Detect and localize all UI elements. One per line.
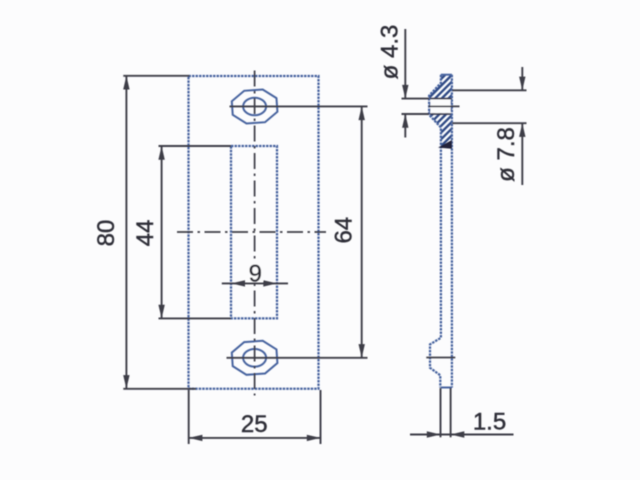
dim 4.3 line upper segment	[404, 29, 406, 98]
dim 25 extension line left	[188, 390, 190, 444]
dim 9 line	[222, 282, 288, 284]
arrow 9 right	[263, 280, 277, 286]
dim 7.8 line lower segment	[521, 124, 523, 185]
svg-text:9: 9	[249, 261, 262, 288]
horizontal centerline	[177, 231, 326, 233]
dim 25 line	[189, 437, 320, 439]
top screw hole bore	[243, 98, 266, 116]
svg-text:64: 64	[331, 217, 358, 244]
hatch terminator arrow	[438, 140, 452, 149]
dim 64 extension line top (hole h-centerline)	[230, 105, 368, 107]
dim 1.5 extension right	[450, 388, 452, 437]
svg-text:ø 4.3: ø 4.3	[377, 25, 404, 80]
svg-text:80: 80	[93, 220, 120, 247]
arrow 44 top	[158, 146, 164, 160]
bottom hole centerline (side view)	[426, 357, 455, 359]
dim 44 extension line top	[159, 145, 232, 147]
arrow 1.5 right (left-pointing)	[451, 431, 465, 437]
arrow 64 top	[359, 106, 365, 120]
arrow 9 left	[231, 280, 245, 286]
svg-text:1.5: 1.5	[473, 409, 506, 436]
arrow 64 bottom	[359, 344, 365, 358]
bore edges in section	[430, 99, 452, 114]
arrowheads side view	[402, 77, 525, 438]
dim 44 line	[161, 147, 163, 319]
bore gap (white) in section	[430, 100, 450, 114]
arrow 80 bottom	[123, 375, 129, 389]
dim 64 line	[361, 107, 363, 358]
dim 64 extension line bottom (hole h-centerline)	[227, 357, 368, 359]
arrow 4.3 top (down)	[402, 85, 408, 99]
dim 4.3 extension bottom	[402, 113, 430, 115]
side profile bottom cap	[441, 387, 452, 389]
dim 4.3 line lower segment	[404, 115, 406, 138]
side profile left edge with countersink flare and bottom bulge	[429, 75, 441, 388]
dim 7.8 extension bottom	[452, 122, 526, 124]
dim 1.5 line	[410, 434, 514, 436]
dim 25 extension line right	[320, 390, 322, 444]
dim 80 extension line top	[123, 75, 189, 77]
arrow 25 left	[189, 435, 203, 441]
arrowheads front view	[123, 76, 365, 441]
white gap behind label 9	[248, 262, 264, 282]
top screw hole countersink (octagon)	[231, 89, 278, 125]
arrow 25 right	[307, 435, 321, 441]
side profile right edge (back face)	[451, 75, 453, 388]
arrow 7.8 bottom (up)	[519, 123, 525, 137]
dim 1.5 extension left	[440, 388, 442, 437]
section hatching	[418, 34, 466, 196]
arrow 44 bottom	[158, 305, 164, 319]
dim 80 extension line bottom	[123, 388, 196, 390]
dim 44 extension line bottom	[159, 317, 232, 319]
bottom screw hole bore	[243, 349, 266, 367]
svg-text:44: 44	[132, 220, 159, 247]
svg-text:25: 25	[241, 411, 268, 438]
plate outline	[189, 76, 319, 389]
side profile top cap	[441, 74, 452, 76]
dim 7.8 line upper segment	[521, 67, 523, 90]
slot (latch opening)	[231, 146, 277, 318]
arrow 7.8 top (down)	[519, 77, 525, 91]
arrow 1.5 left (right-pointing)	[427, 431, 441, 437]
bottom screw hole countersink (octagon)	[231, 340, 278, 376]
arrow 4.3 bottom (up)	[402, 114, 408, 128]
svg-text:ø 7.8: ø 7.8	[493, 127, 520, 182]
vertical centerline	[254, 71, 256, 396]
top hole centerline (side view)	[429, 105, 460, 107]
dim 4.3 extension top	[402, 98, 430, 100]
dim 7.8 extension top	[452, 89, 526, 91]
dim 80 line	[125, 77, 127, 389]
arrow 80 top	[123, 76, 129, 90]
